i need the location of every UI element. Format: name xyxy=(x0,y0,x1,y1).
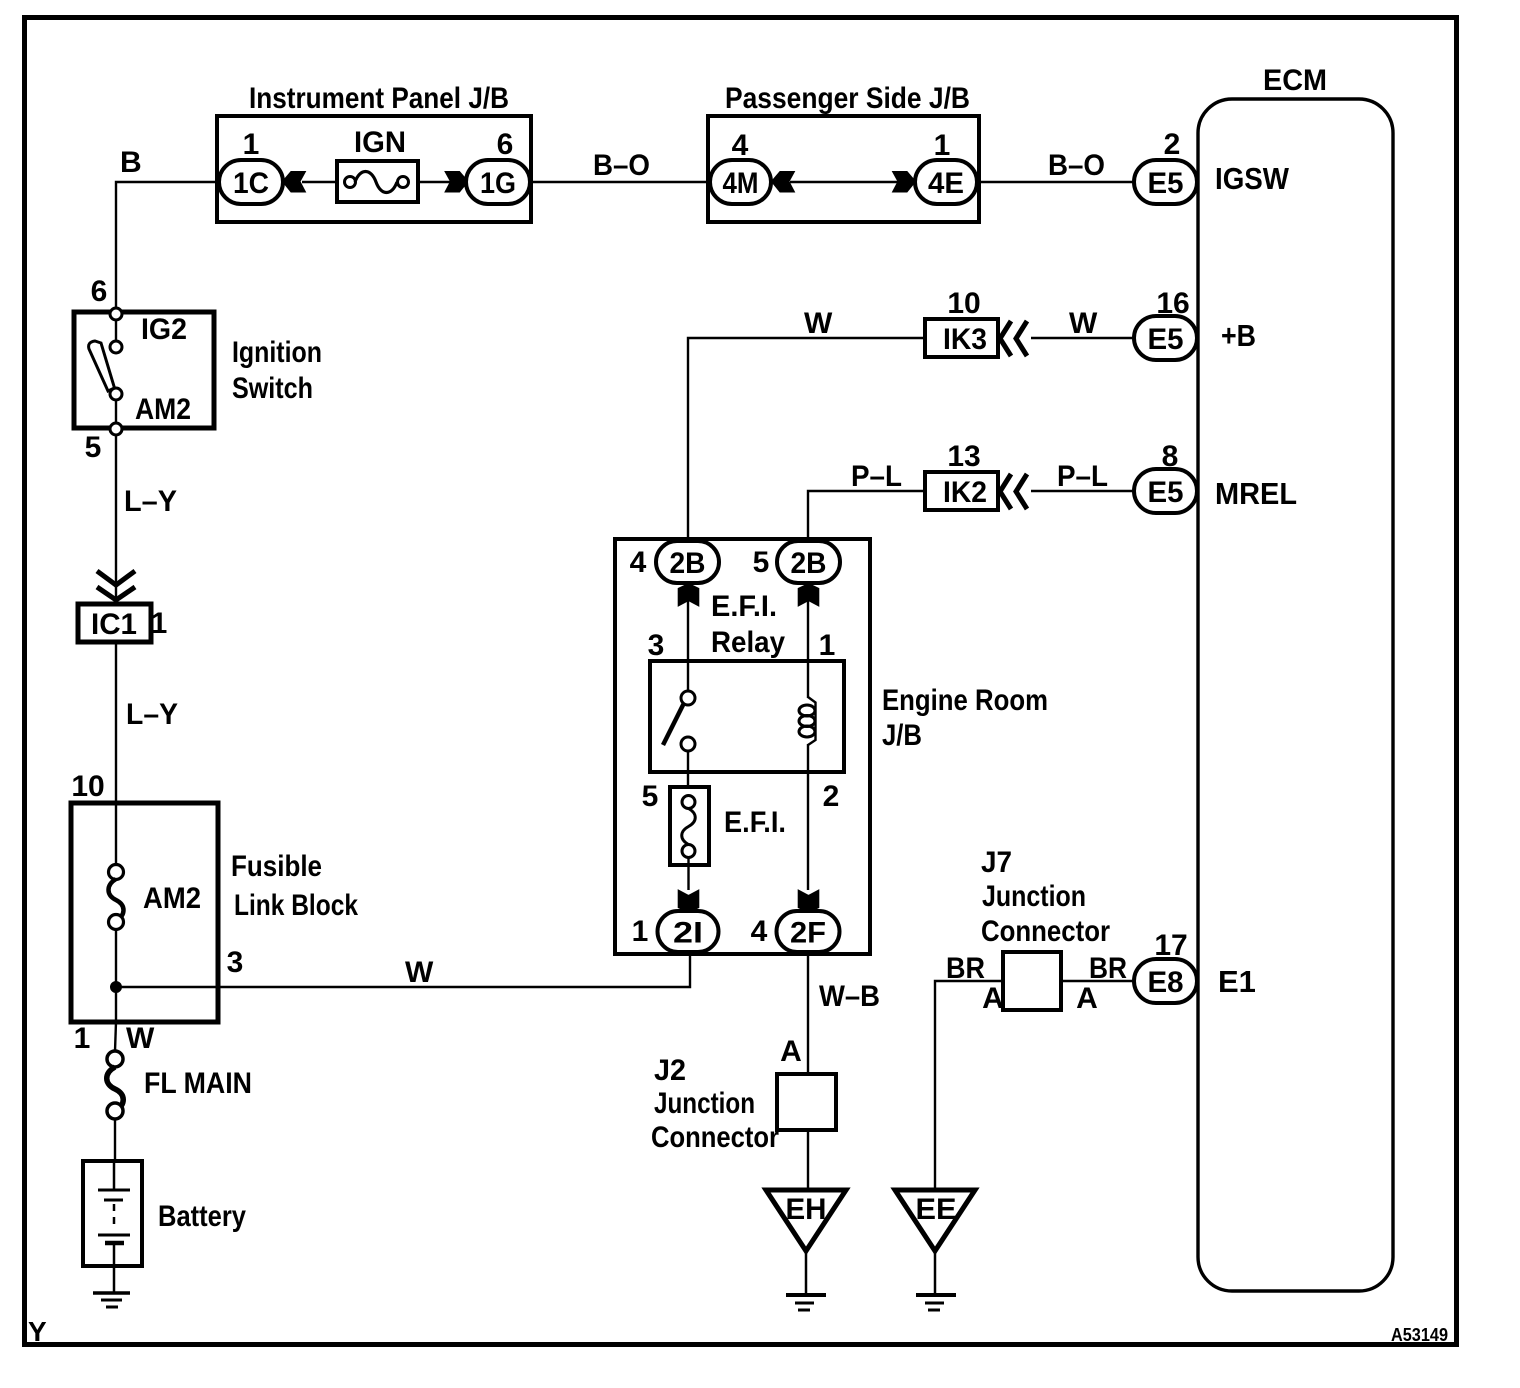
terminal circle top edge xyxy=(110,308,122,320)
svg-text:Battery: Battery xyxy=(158,1200,246,1233)
svg-text:Junction: Junction xyxy=(982,880,1086,913)
ground below battery xyxy=(93,1291,130,1295)
ground triangle EH xyxy=(766,1190,846,1251)
svg-text:Connector: Connector xyxy=(651,1121,779,1154)
svg-text:1C: 1C xyxy=(233,167,269,200)
svg-text:EH: EH xyxy=(786,1193,827,1226)
svg-text:E1: E1 xyxy=(1218,964,1256,999)
connector E8 xyxy=(1134,959,1197,1003)
svg-text:B–O: B–O xyxy=(593,149,650,182)
svg-text:FL MAIN: FL MAIN xyxy=(144,1067,252,1100)
svg-text:AM2: AM2 xyxy=(135,393,191,426)
svg-text:IK2: IK2 xyxy=(943,476,987,509)
connector 4E xyxy=(915,160,977,204)
svg-text:E5: E5 xyxy=(1148,323,1184,356)
wire L-Y IC1 to fusible link block xyxy=(115,642,117,803)
svg-text:Engine Room: Engine Room xyxy=(882,684,1048,717)
relay box xyxy=(650,661,844,772)
connector 2B right xyxy=(777,541,840,583)
connector 2I xyxy=(658,911,719,952)
relay switch contact xyxy=(681,691,695,705)
svg-text:E.F.I.: E.F.I. xyxy=(711,590,777,623)
svg-text:L–Y: L–Y xyxy=(126,698,178,731)
chevrons after IK2 xyxy=(1000,474,1027,509)
svg-text:Instrument Panel J/B: Instrument Panel J/B xyxy=(249,82,509,115)
ECM box xyxy=(1198,99,1393,1291)
svg-text:3: 3 xyxy=(227,946,244,979)
svg-text:Passenger Side J/B: Passenger Side J/B xyxy=(725,82,970,115)
connector 4M xyxy=(710,160,771,204)
wire J7 to E8 xyxy=(1061,980,1136,982)
fusible link AM2 xyxy=(115,803,117,865)
arrowhead into 4E xyxy=(893,172,916,193)
wire contact to EFI fuse xyxy=(687,751,689,796)
svg-text:Link Block: Link Block xyxy=(234,889,358,922)
terminal circle bottom edge xyxy=(110,423,122,435)
svg-text:4: 4 xyxy=(630,546,647,579)
Passenger Side J/B box xyxy=(708,116,979,222)
svg-text:4E: 4E xyxy=(928,167,964,200)
svg-text:ECM: ECM xyxy=(1263,64,1327,97)
arrowhead into 1C xyxy=(283,172,306,193)
wire battery to ground xyxy=(113,1266,116,1292)
wire EFI fuse to 2I xyxy=(687,857,689,890)
arrowhead into 1G xyxy=(445,172,468,193)
wire 2B left to relay contact xyxy=(687,583,689,691)
svg-text:W: W xyxy=(405,956,434,989)
svg-text:2: 2 xyxy=(1164,128,1181,161)
svg-text:10: 10 xyxy=(947,287,980,320)
Engine Room J/B box xyxy=(615,539,870,954)
wire top to IG2 terminal xyxy=(115,320,117,341)
svg-text:2B: 2B xyxy=(791,547,827,580)
connector chevrons above IC1 xyxy=(97,571,135,600)
svg-text:Connector: Connector xyxy=(981,915,1110,948)
fuse IGN xyxy=(337,161,418,202)
wire 1C to IGN fuse xyxy=(302,181,337,183)
svg-text:W: W xyxy=(804,307,833,340)
svg-text:W–B: W–B xyxy=(819,980,880,1013)
svg-text:E.F.I.: E.F.I. xyxy=(724,806,786,839)
svg-text:3: 3 xyxy=(648,629,665,662)
wire J2 to EH xyxy=(807,1130,809,1190)
svg-text:P–L: P–L xyxy=(1057,460,1108,493)
wire W from junction to 2I xyxy=(116,952,690,987)
wire coil to 2F xyxy=(807,744,809,890)
svg-text:W: W xyxy=(1069,307,1098,340)
ground triangle EE xyxy=(895,1190,975,1251)
svg-text:Fusible: Fusible xyxy=(231,850,322,883)
svg-text:13: 13 xyxy=(947,440,980,473)
battery box xyxy=(83,1161,142,1266)
svg-text:Y: Y xyxy=(28,1316,47,1347)
arrowhead up into 2B right xyxy=(798,584,819,607)
ground below EE xyxy=(916,1293,956,1297)
svg-text:W: W xyxy=(126,1022,155,1055)
wire IK2 to E5 pin 8 xyxy=(1031,490,1136,492)
svg-text:IG2: IG2 xyxy=(141,313,187,346)
svg-text:BR: BR xyxy=(946,952,985,985)
fusible link block box xyxy=(71,803,218,1022)
arrowhead down into 2F xyxy=(798,890,819,913)
ground below EH xyxy=(786,1293,826,1297)
wire EE up to J7 xyxy=(935,981,1003,1190)
svg-text:J7: J7 xyxy=(981,846,1012,879)
svg-text:EE: EE xyxy=(916,1193,957,1226)
wire AM2 to bottom edge xyxy=(115,400,117,423)
svg-text:IK3: IK3 xyxy=(943,323,987,356)
wire B from 1C to ignition switch xyxy=(116,182,219,309)
connector IC1 xyxy=(78,604,151,642)
svg-text:MREL: MREL xyxy=(1215,476,1297,511)
connector 1G xyxy=(466,160,530,204)
switch arm xyxy=(89,341,115,391)
svg-text:Ignition: Ignition xyxy=(232,336,322,369)
svg-text:A53149: A53149 xyxy=(1391,1325,1448,1345)
svg-text:2: 2 xyxy=(823,780,840,813)
svg-text:E5: E5 xyxy=(1148,167,1184,200)
svg-text:1: 1 xyxy=(243,128,260,161)
junction connector J2 box xyxy=(777,1074,836,1130)
svg-text:1: 1 xyxy=(819,629,836,662)
wire IGN fuse to 1G xyxy=(418,181,467,183)
Instrument Panel J/B box xyxy=(217,116,531,222)
junction node xyxy=(111,982,122,993)
wire FL MAIN to battery xyxy=(114,1119,116,1161)
svg-text:Switch: Switch xyxy=(232,372,313,405)
svg-text:5: 5 xyxy=(85,431,102,464)
svg-text:1: 1 xyxy=(74,1022,91,1055)
wire W-B from 2F to J2 xyxy=(807,952,809,1074)
connector 1C xyxy=(219,160,283,204)
connector IK2 xyxy=(925,472,998,510)
svg-text:A: A xyxy=(1076,982,1098,1015)
ignition switch box xyxy=(74,312,214,428)
connector E5 (+B) xyxy=(1134,316,1197,360)
svg-text:4: 4 xyxy=(751,915,768,948)
svg-text:E8: E8 xyxy=(1148,966,1184,999)
terminal IG2 xyxy=(110,341,122,353)
svg-text:L–Y: L–Y xyxy=(124,485,177,518)
wire 2B right to relay coil xyxy=(807,583,809,698)
connector E5 (IGSW) xyxy=(1134,160,1197,204)
connector 2B left xyxy=(656,541,719,583)
svg-text:1G: 1G xyxy=(480,167,516,200)
svg-text:1: 1 xyxy=(934,129,951,162)
svg-text:P–L: P–L xyxy=(851,460,902,493)
svg-text:IGN: IGN xyxy=(354,126,406,159)
svg-text:1: 1 xyxy=(151,607,168,640)
svg-text:Junction: Junction xyxy=(654,1087,755,1120)
wire L-Y ignition to IC1 xyxy=(115,435,117,604)
svg-text:A: A xyxy=(982,982,1004,1015)
fuse E.F.I. xyxy=(670,787,709,865)
svg-text:IC1: IC1 xyxy=(91,608,137,641)
svg-text:IGSW: IGSW xyxy=(1215,161,1290,196)
wire 4M to 4E xyxy=(790,181,899,183)
svg-text:AM2: AM2 xyxy=(143,882,201,915)
svg-text:5: 5 xyxy=(642,780,659,813)
svg-text:10: 10 xyxy=(71,770,104,803)
svg-text:Relay: Relay xyxy=(711,626,785,659)
svg-text:J/B: J/B xyxy=(882,719,922,752)
connector IK3 xyxy=(925,319,998,357)
junction connector J7 box xyxy=(1003,952,1061,1010)
arrowhead into 4M xyxy=(772,172,795,193)
chevrons after IK3 xyxy=(1000,321,1027,356)
svg-text:1: 1 xyxy=(632,915,649,948)
svg-text:E5: E5 xyxy=(1148,476,1184,509)
wire 4E to E5 pin 2 xyxy=(977,181,1136,183)
fusible link FL MAIN xyxy=(115,1022,116,1051)
battery cells xyxy=(113,1161,116,1190)
svg-text:6: 6 xyxy=(497,128,514,161)
svg-text:B: B xyxy=(120,146,142,179)
svg-text:A: A xyxy=(780,1035,802,1068)
terminal AM2 xyxy=(110,388,122,400)
svg-text:2B: 2B xyxy=(670,547,706,580)
arrowhead down into 2I xyxy=(678,890,699,913)
wire W from 2B pin4 up to IK3 xyxy=(688,338,925,543)
svg-text:+B: +B xyxy=(1221,318,1256,353)
wire EE to ground xyxy=(934,1251,937,1293)
arrowhead up into 2B left xyxy=(678,584,699,607)
relay coil xyxy=(808,697,816,745)
svg-text:2I: 2I xyxy=(673,917,703,950)
connector E5 (MREL) xyxy=(1134,469,1197,513)
svg-text:5: 5 xyxy=(753,546,770,579)
wire EH to ground xyxy=(805,1251,808,1293)
wire 1G to 4M xyxy=(530,181,710,183)
svg-text:BR: BR xyxy=(1089,952,1127,985)
svg-text:4: 4 xyxy=(732,129,749,162)
svg-text:6: 6 xyxy=(91,275,108,308)
svg-text:J2: J2 xyxy=(654,1054,686,1087)
wire IK3 to E5 pin 16 xyxy=(1031,337,1136,339)
svg-text:B–O: B–O xyxy=(1048,149,1105,182)
wire P-L from 2B pin5 up to IK2 xyxy=(808,491,925,543)
connector 2F xyxy=(777,911,840,952)
svg-text:4M: 4M xyxy=(723,167,759,200)
svg-text:2F: 2F xyxy=(790,917,826,950)
